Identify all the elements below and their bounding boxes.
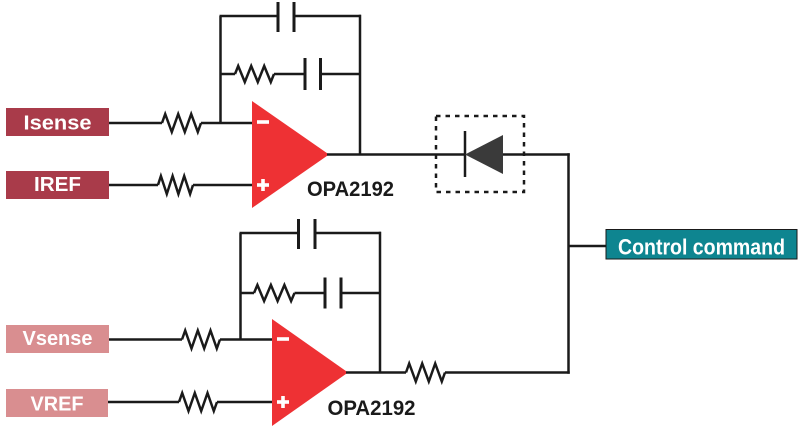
input label VREF <box>6 389 108 417</box>
resistor R3 <box>235 66 274 82</box>
capacitor C4 <box>325 278 341 309</box>
resistor R8 <box>406 364 445 382</box>
wire R8 to summing node <box>445 371 570 374</box>
capacitor C1 <box>278 2 294 32</box>
wire R5 to U2 inverting input <box>220 338 273 341</box>
wire feedback left vertical (node at U1 inverting input) <box>219 16 222 123</box>
wire U1 output to diode D1 <box>327 153 466 156</box>
wire Vsense to R5 <box>109 338 182 341</box>
resistor R5 <box>182 331 220 349</box>
input label Vsense <box>6 325 109 353</box>
wire R3 to C2 <box>274 73 305 76</box>
svg-text:OPA2192: OPA2192 <box>307 177 394 201</box>
svg-text:Isense: Isense <box>24 113 92 135</box>
input label IREF <box>6 171 109 199</box>
wire bottom middle loop left <box>241 292 255 295</box>
wire feedback right vertical to U2 output <box>379 232 382 373</box>
wire IREF to R2 <box>109 184 158 187</box>
wire C3 to right vertical <box>315 232 381 235</box>
op-amp U1 <box>252 101 329 208</box>
wire middle loop left <box>221 73 236 76</box>
svg-text:Control command: Control command <box>618 235 785 260</box>
wire C4 to right vertical <box>341 292 381 295</box>
input label Isense <box>6 108 109 136</box>
resistor R2 <box>158 176 193 194</box>
svg-text:VREF: VREF <box>31 394 84 416</box>
wire bottom feedback top loop left <box>240 232 299 235</box>
output label Control command <box>606 230 797 260</box>
svg-text:OPA2192: OPA2192 <box>328 396 416 420</box>
wire C2 to right vertical <box>321 73 362 76</box>
dashed box around D1 <box>436 116 524 192</box>
resistor R7 <box>254 285 295 301</box>
wire U2 output to R8 <box>346 371 406 374</box>
wire Isense to R1 <box>109 122 162 125</box>
wire R1 to U1 inverting input <box>201 122 253 125</box>
wire C1 to right vertical <box>294 15 361 18</box>
capacitor C2 <box>305 58 321 90</box>
wire top feedback loop left <box>220 15 279 18</box>
wire summing vertical <box>567 153 570 374</box>
resistor R1 <box>162 114 201 132</box>
wire R2 to U1 non-inverting input <box>193 184 253 187</box>
wire branch to control command box <box>569 245 607 248</box>
wire feedback right vertical to U1 output <box>359 15 362 155</box>
svg-text:Vsense: Vsense <box>23 328 93 350</box>
wire D1 to summing node <box>503 153 570 156</box>
wire VREF to R6 <box>108 401 179 404</box>
svg-text:IREF: IREF <box>34 174 81 196</box>
wire R7 to C4 <box>295 292 326 295</box>
diode D1 <box>465 131 503 177</box>
op-amp U2 <box>272 319 348 426</box>
wire R6 to U2 non-inverting input <box>217 401 273 404</box>
wire feedback left vertical (node at U2 inverting input) <box>239 233 242 340</box>
resistor R6 <box>179 393 217 411</box>
capacitor C3 <box>299 219 316 249</box>
